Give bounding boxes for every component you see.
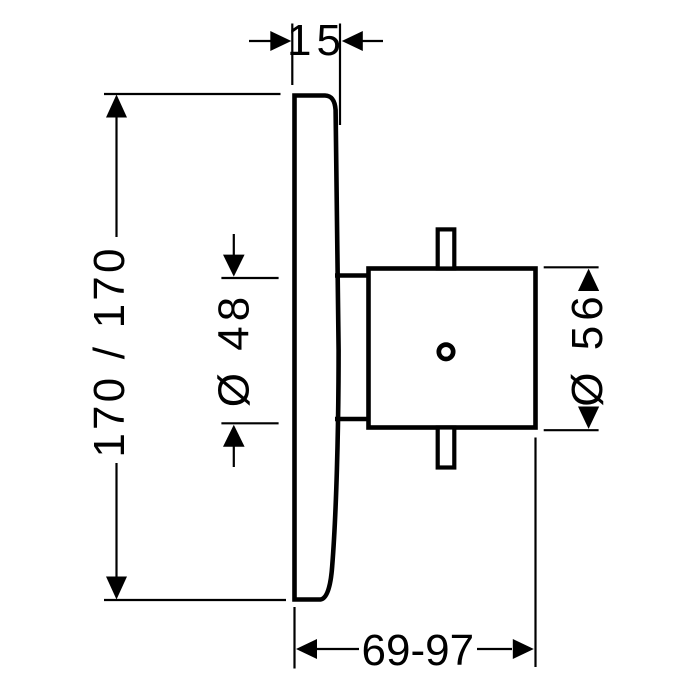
dim 15: left extension line [291, 24, 293, 86]
svg-text:15: 15 [287, 16, 346, 65]
dim Ø48: lower stub [233, 445, 235, 467]
svg-text:69-97: 69-97 [362, 626, 475, 675]
dim 170/170: top arrow [106, 95, 127, 118]
dim Ø48: bottom extension line [221, 422, 278, 424]
dim Ø56: top extension line [544, 266, 599, 268]
dim Ø56: lower arrow (down) [578, 407, 599, 429]
dim Ø48: upper stub [233, 234, 235, 256]
dim 69-97: right arrow [513, 639, 534, 659]
center screw circle [439, 345, 453, 359]
dim 69-97: right leader line [477, 648, 512, 650]
dim 15: right leader line [361, 40, 383, 42]
svg-text:170 / 170: 170 / 170 [85, 245, 134, 457]
dim Ø48: lower arrow (up) [223, 425, 245, 447]
dim 15: right extension line [339, 24, 341, 126]
dim 170/170: upper shaft [115, 116, 117, 237]
dim 69-97: left arrow [296, 639, 317, 659]
sleeve neck bottom line [335, 417, 369, 421]
sleeve neck top line [335, 273, 369, 277]
dim Ø48: upper arrow (down) [223, 255, 245, 277]
dim 170/170: bottom extension line [104, 599, 286, 601]
dim 170/170: lower shaft [115, 463, 117, 578]
escutcheon plate profile [295, 96, 339, 600]
dim 15: left arrow [270, 31, 291, 51]
dim Ø48: top extension line [221, 277, 278, 279]
dim 69-97: left leader line [316, 648, 359, 650]
dim 170/170: top extension line [104, 93, 281, 95]
spindle tab bottom [438, 428, 455, 468]
dim Ø56: upper arrow (up) [578, 269, 599, 291]
spindle tab top [438, 229, 455, 268]
svg-text:Ø 56: Ø 56 [563, 291, 612, 406]
dim 69-97: left extension line [293, 607, 295, 669]
svg-text:Ø 48: Ø 48 [210, 292, 259, 407]
dim Ø56: bottom extension line [544, 429, 599, 431]
dim 170/170: bottom arrow [106, 577, 127, 600]
dim 15: left leader line [249, 40, 272, 42]
dim 15: right arrow [342, 31, 363, 51]
valve body square [369, 269, 536, 428]
dim 69-97: right extension line [534, 438, 536, 668]
